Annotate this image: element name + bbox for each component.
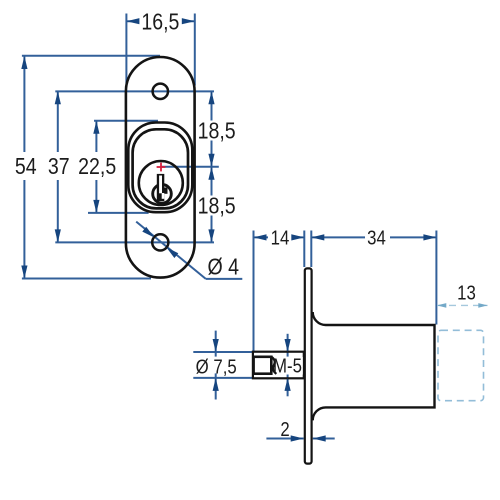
arrow dia4 upper: [142, 227, 154, 238]
lock plate stadium outline: [126, 57, 195, 278]
svg-text:13: 13: [457, 281, 476, 304]
ext line shaft left: [253, 231, 255, 352]
svg-text:16,5: 16,5: [141, 9, 179, 35]
svg-text:54: 54: [15, 153, 37, 179]
dim 18,5 line: [211, 91, 213, 242]
keyhole: [153, 174, 172, 203]
dim 14 line: [254, 236, 305, 238]
svg-text:2: 2: [280, 418, 289, 441]
ext line top of 54: [22, 55, 160, 57]
svg-text:M-5: M-5: [273, 354, 302, 377]
shared ext line through bottom hole: [55, 241, 214, 243]
svg-text:34: 34: [367, 226, 386, 249]
arrow 22,5 top: [93, 121, 99, 134]
arrow dia7,5 right bottom: [285, 378, 291, 391]
ext line right of 16,5: [194, 14, 196, 86]
svg-text:18,5: 18,5: [198, 193, 236, 219]
arrow dia7,5 right top: [285, 339, 291, 352]
arrow 22,5 bottom: [93, 200, 99, 213]
dim 54 line: [23, 56, 25, 279]
keyhole lower slot white: [162, 193, 165, 199]
arrow 16,5 right: [182, 18, 195, 24]
ext line body end: [435, 231, 437, 325]
cylinder outer oval: [128, 123, 192, 213]
dia 7,5 arrow stem bottom right: [287, 373, 289, 396]
dia 7,5 arrow stem top right: [287, 334, 289, 357]
arrow 34 right: [423, 234, 436, 240]
arrow 18,5 mid lower: [208, 167, 214, 180]
svg-text:Ø 7,5: Ø 7,5: [196, 355, 237, 378]
arrow 2 left: [291, 435, 304, 441]
dashed light blue cam zone: [437, 305, 488, 400]
arrow 54 top: [21, 56, 27, 69]
keyhole ring: [153, 185, 172, 204]
arrow 37 bottom: [55, 229, 61, 242]
arrow 54 bottom: [21, 266, 27, 279]
dim 16,5 line: [126, 20, 194, 22]
ext line shaft bottom edge: [193, 377, 252, 379]
dim 2 line left: [266, 438, 303, 440]
dashed cam rectangle: [438, 330, 484, 400]
dia 7,5 arrow stem bottom left: [215, 373, 217, 399]
dim 22,5 line: [95, 121, 97, 213]
ext line plate left face: [303, 231, 305, 268]
svg-text:18,5: 18,5: [198, 118, 236, 144]
flange plate side: [305, 268, 312, 463]
dim 34 line: [311, 236, 436, 238]
threaded shaft outline: [253, 352, 304, 379]
keyhole upper slot white: [159, 176, 162, 194]
ext line plate right face: [310, 231, 312, 268]
ext line bottom of 54: [22, 278, 151, 280]
arrow dia7,5 left top: [213, 339, 219, 352]
body with fillets: [313, 312, 435, 420]
dim 13 dashed line: [437, 304, 488, 306]
svg-text:37: 37: [48, 153, 70, 179]
arrow dia4 lower: [166, 247, 178, 258]
leader line diameter 4: [136, 222, 206, 279]
arrow 18,5 bottom: [208, 229, 214, 242]
dim 37 line: [57, 91, 59, 242]
dia 7,5 arrow stem top left: [215, 331, 217, 357]
keyhole right bit blob: [164, 188, 168, 194]
arrow 16,5 left: [126, 18, 139, 24]
cylinder inner oval: [133, 129, 188, 208]
arrow 14 left: [254, 234, 267, 240]
ext line bottom of 22,5: [88, 212, 149, 214]
svg-text:22,5: 22,5: [78, 153, 116, 179]
ext line shaft top edge: [193, 351, 252, 353]
center ext line from red cross: [161, 166, 219, 168]
red centre cross: [157, 163, 166, 172]
key plug circle: [139, 161, 183, 205]
svg-text:14: 14: [271, 226, 290, 249]
arrow 2 right: [313, 435, 326, 441]
top screw hole: [153, 84, 168, 99]
bottom screw hole: [152, 234, 168, 250]
arrow 18,5 mid upper: [208, 154, 214, 167]
dim 2 line right: [313, 438, 335, 440]
arrow 18,5 top: [208, 91, 214, 104]
arrow 37 top: [55, 91, 61, 104]
ext line left of 16,5: [125, 14, 127, 86]
keyhole stem bar: [157, 174, 165, 201]
ext line top of 22,5: [94, 120, 158, 122]
dim 13 arrowheads: [437, 303, 488, 308]
leader shoulder diameter 4: [206, 278, 243, 280]
thread runout curve: [271, 357, 276, 374]
arrow dia7,5 left bottom: [213, 378, 219, 391]
arrow 34 left: [311, 234, 324, 240]
svg-text:Ø 4: Ø 4: [207, 254, 239, 280]
M5 socket rectangle: [254, 357, 272, 374]
shared ext line through top hole: [55, 90, 214, 92]
arrow 14 right: [291, 234, 304, 240]
